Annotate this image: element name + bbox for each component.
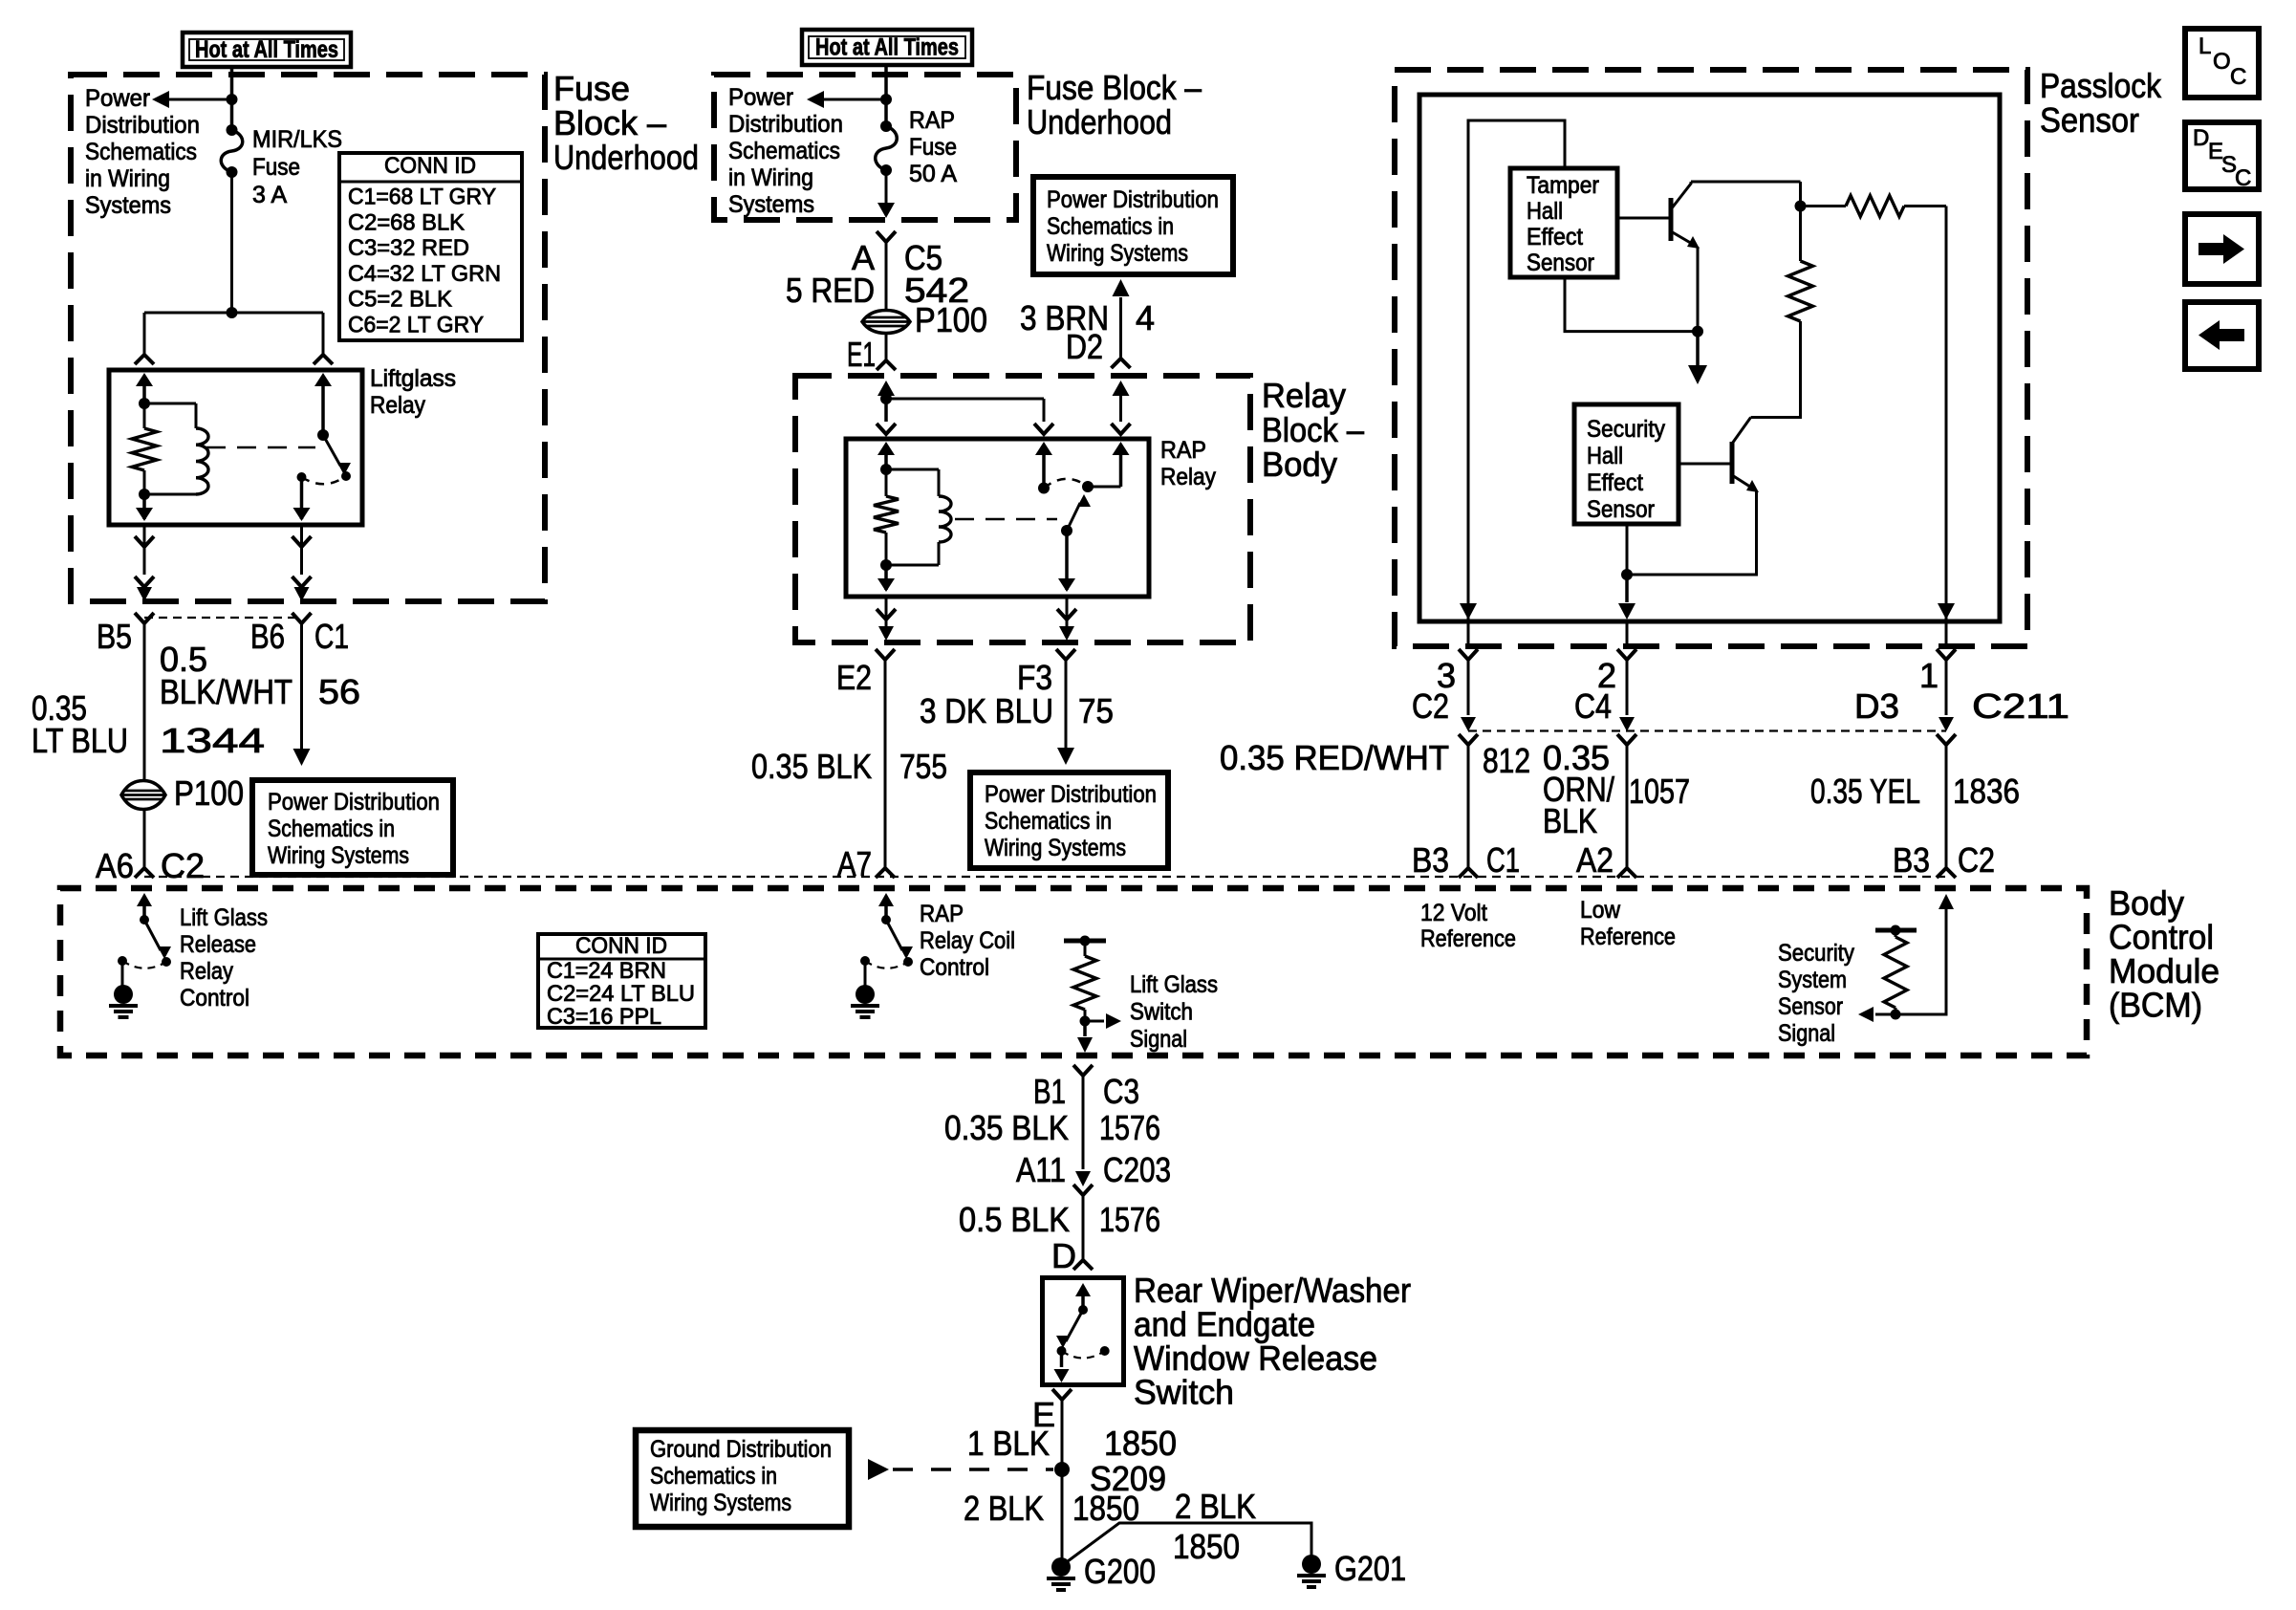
connector fork and arrow at fuse-block border (B6) xyxy=(292,577,312,587)
node security sensor signal xyxy=(1891,1010,1901,1020)
wire RAP switch to F3 border xyxy=(1066,597,1069,626)
svg-text:Fuse Block –: Fuse Block – xyxy=(1027,68,1202,107)
reference box: Power Distribution Schematics (middle) xyxy=(970,772,1168,868)
connector fork at BCM entry A6 xyxy=(135,868,154,878)
svg-text:D: D xyxy=(2193,125,2209,151)
wire pin 2 to BCM (0.35 ORN/BLK) xyxy=(1626,660,1629,715)
svg-text:A2: A2 xyxy=(1576,840,1614,880)
svg-text:Effect: Effect xyxy=(1587,469,1643,496)
wire resistor to output pin 1 xyxy=(1904,205,1946,207)
wire RAP fuse to border arrow xyxy=(885,170,888,203)
svg-text:in Wiring: in Wiring xyxy=(85,165,170,192)
wire A/C5 to P100 (middle) xyxy=(885,242,888,310)
svg-text:Signal: Signal xyxy=(1130,1026,1187,1053)
resistor in liftglass relay (coil suppression) xyxy=(143,403,146,428)
svg-text:1: 1 xyxy=(1919,656,1939,695)
svg-text:3 DK BLU: 3 DK BLU xyxy=(920,691,1053,730)
svg-text:Low: Low xyxy=(1580,897,1621,924)
svg-text:Wiring Systems: Wiring Systems xyxy=(985,835,1126,861)
svg-text:Systems: Systems xyxy=(85,192,171,219)
node relay block feed split xyxy=(880,393,892,404)
dashed box: Passlock Sensor xyxy=(1395,70,2027,646)
node RAP switch pivot xyxy=(1061,525,1072,536)
wire right branch down to relay pin xyxy=(322,313,325,355)
wire fuse to split node xyxy=(230,172,233,313)
svg-text:E2: E2 xyxy=(836,658,872,697)
wire horizontal split xyxy=(144,312,323,315)
svg-text:56: 56 xyxy=(318,672,360,711)
wire security sensor output to Q2 base xyxy=(1679,463,1732,466)
RAP relay switch arm xyxy=(1067,503,1080,531)
node collector-resistor junction xyxy=(1795,201,1807,212)
svg-text:12 Volt: 12 Volt xyxy=(1420,900,1487,926)
node RAP switch NO contact xyxy=(1082,481,1094,492)
svg-text:Security: Security xyxy=(1778,940,1854,967)
svg-text:2 BLK: 2 BLK xyxy=(1175,1487,1256,1526)
RAP relay output arrow xyxy=(1113,442,1130,455)
connector fork pin 2 xyxy=(1617,649,1636,660)
svg-text:L: L xyxy=(2199,33,2211,59)
wire NO contact to output xyxy=(1088,486,1121,489)
svg-text:Tamper: Tamper xyxy=(1527,172,1599,199)
svg-text:G200: G200 xyxy=(1084,1552,1156,1591)
connector fork pin3 harness side xyxy=(1459,734,1478,745)
node RAP coil bottom xyxy=(880,559,892,571)
connector fork pin2 harness side xyxy=(1617,734,1636,745)
fuse MIR/LKS 3 A xyxy=(227,124,238,136)
switch: Lift Glass Release Relay Control (in BCM) xyxy=(142,902,146,920)
svg-text:LT BLU: LT BLU xyxy=(32,721,128,760)
wire D2 inside relay block xyxy=(1113,381,1130,396)
wire security sensor node up to B3/C2 entry xyxy=(1895,908,1946,1014)
transistor Q2 base bar xyxy=(1730,442,1735,484)
wire from Hot at All Times down to fuse MIR/LKS xyxy=(230,67,234,130)
svg-text:0.35 RED/WHT: 0.35 RED/WHT xyxy=(1220,738,1449,777)
svg-text:Lift Glass: Lift Glass xyxy=(180,904,268,931)
RAP relay coil-side entry arrow xyxy=(884,451,888,469)
svg-text:C3=16 PPL: C3=16 PPL xyxy=(547,1004,661,1030)
dashed box: Fuse Block - Underhood (left) xyxy=(71,75,545,601)
connector fork below BCM (B1) xyxy=(1073,1065,1093,1076)
RAP relay switch common entry arrow xyxy=(1042,451,1046,489)
RAP relay switch exit arrow xyxy=(1065,531,1069,590)
svg-text:Power Distribution: Power Distribution xyxy=(268,789,440,816)
svg-text:C5=2 BLK: C5=2 BLK xyxy=(348,287,452,313)
wire E2 to BCM pin A7 xyxy=(884,660,887,868)
node liftglass coil bottom xyxy=(139,489,150,500)
svg-text:D: D xyxy=(1051,1236,1076,1275)
wire sensor ground to pin 2 arrow xyxy=(1625,575,1629,602)
inline connector C203 arrow and fork xyxy=(1075,1171,1091,1186)
svg-text:RAP: RAP xyxy=(909,107,955,134)
wire/arrow to Power Distribution Schematics (middle) xyxy=(824,98,886,101)
svg-text:E1: E1 xyxy=(847,335,876,374)
svg-text:Hot at All Times: Hot at All Times xyxy=(195,36,338,63)
wire passlock feed return arrow (pin 3) xyxy=(1460,603,1477,620)
node lift glass switch signal xyxy=(1080,1016,1091,1027)
svg-text:Schematics in: Schematics in xyxy=(268,816,395,842)
svg-text:Ground Distribution: Ground Distribution xyxy=(650,1436,832,1463)
connector fork below rear switch (E) xyxy=(1052,1389,1072,1400)
svg-text:Power: Power xyxy=(728,84,793,111)
connector fork pin 3 xyxy=(1459,649,1478,660)
svg-text:BLK: BLK xyxy=(1543,801,1597,840)
node: junction to power distribution arrow (middle) xyxy=(880,94,892,105)
liftglass relay switch arm xyxy=(323,435,340,466)
svg-text:Block –: Block – xyxy=(1262,410,1364,449)
sensor box: Tamper Hall Effect Sensor xyxy=(1510,168,1617,277)
svg-text:RAP: RAP xyxy=(1160,437,1206,464)
emitter current arrow Q1 xyxy=(1696,332,1700,365)
node liftglass switch output contact xyxy=(297,472,307,482)
svg-text:Relay: Relay xyxy=(370,392,425,419)
inner case of passlock sensor xyxy=(1419,95,2000,621)
node rear switch NC contact xyxy=(1100,1346,1110,1356)
svg-text:C2: C2 xyxy=(1958,840,1995,880)
signal arrow right (lift glass switch signal) xyxy=(1085,1020,1104,1023)
svg-text:Security: Security xyxy=(1587,416,1665,443)
svg-text:Sensor: Sensor xyxy=(1778,993,1843,1020)
wire passlock 12V feed (pin 3) xyxy=(1468,120,1565,620)
connector fork at RAP relay switch common pin xyxy=(1034,424,1053,434)
connector fork at rear wiper switch entry D xyxy=(1073,1260,1093,1270)
svg-text:1850: 1850 xyxy=(1104,1424,1177,1463)
mechanical link liftglass relay (dashed) xyxy=(206,446,315,449)
svg-text:CONN ID: CONN ID xyxy=(575,933,667,959)
svg-text:B5: B5 xyxy=(97,617,132,656)
wire to rear wiper switch (0.5 BLK 1576) xyxy=(1082,1195,1085,1260)
conn id table (fuse block underhood) xyxy=(339,153,522,340)
connector fork at RAP relay NO contact pin xyxy=(1112,424,1131,434)
node RAP coil top xyxy=(880,464,892,475)
svg-text:Distribution: Distribution xyxy=(728,111,843,138)
svg-text:Passlock: Passlock xyxy=(2040,66,2162,105)
wire branch to G201 (2 BLK 1850) xyxy=(1064,1523,1311,1564)
svg-text:Hall: Hall xyxy=(1587,443,1623,469)
svg-text:Fuse: Fuse xyxy=(553,69,630,108)
svg-text:0.35 BLK: 0.35 BLK xyxy=(944,1108,1069,1147)
svg-text:C3: C3 xyxy=(1103,1072,1139,1111)
svg-text:BLK/WHT: BLK/WHT xyxy=(160,672,292,711)
svg-text:P100: P100 xyxy=(174,773,244,813)
svg-text:Lift Glass: Lift Glass xyxy=(1130,971,1218,998)
thin dashed connector line B5-B6 xyxy=(144,617,302,619)
conn id table (BCM) xyxy=(538,934,705,1028)
node liftglass switch common xyxy=(317,429,329,441)
svg-text:B1: B1 xyxy=(1033,1072,1066,1111)
svg-text:Effect: Effect xyxy=(1527,224,1583,250)
svg-text:C2: C2 xyxy=(1412,686,1449,726)
relay box: Liftglass Relay xyxy=(109,370,362,525)
svg-text:Relay: Relay xyxy=(180,958,233,985)
svg-text:Relay Coil: Relay Coil xyxy=(920,927,1015,954)
svg-text:Reference: Reference xyxy=(1420,925,1516,952)
wire pin 3 to BCM (0.35 RED/WHT) xyxy=(1467,660,1470,715)
wire Q2 emitter to ground node xyxy=(1627,490,1757,575)
svg-text:Wiring Systems: Wiring Systems xyxy=(1047,240,1188,267)
svg-text:1576: 1576 xyxy=(1099,1200,1160,1239)
wire/arrow to Power Distribution Schematics (left) xyxy=(169,98,232,101)
connector fork pin1 harness side xyxy=(1937,734,1956,745)
svg-text:C2=24 LT BLU: C2=24 LT BLU xyxy=(547,981,695,1007)
node liftglass switch moving end xyxy=(341,471,351,481)
rear switch entry arrow xyxy=(1081,1293,1085,1310)
wire B5 to P100 xyxy=(143,623,146,780)
icon box DESC xyxy=(2185,122,2259,189)
dashed box: Body Control Module (BCM) xyxy=(60,888,2087,1055)
svg-text:C1=24 BRN: C1=24 BRN xyxy=(547,958,666,984)
svg-text:Hall: Hall xyxy=(1527,198,1563,225)
connector fork at BCM entry A7 xyxy=(876,868,895,878)
node RAP switch common xyxy=(1038,483,1050,494)
svg-text:C211: C211 xyxy=(1972,686,2069,726)
svg-text:B3: B3 xyxy=(1893,840,1930,880)
connector fork at BCM entry B3/C1 xyxy=(1459,868,1478,878)
rear switch exit arrow xyxy=(1060,1351,1064,1367)
wire liftglass relay contact out to B6 xyxy=(300,525,303,575)
RAP relay coil-side exit arrow xyxy=(884,565,888,590)
svg-text:1057: 1057 xyxy=(1629,772,1690,811)
wire pin 1 to BCM (0.35 YEL) xyxy=(1945,660,1948,715)
connector fork F3 below relay block xyxy=(1056,649,1075,660)
liftglass relay switch exit arrow xyxy=(300,477,304,519)
svg-text:Wiring Systems: Wiring Systems xyxy=(650,1490,791,1516)
svg-text:Hot at All Times: Hot at All Times xyxy=(815,34,959,61)
wire D2 up to power distribution reference xyxy=(1112,359,1131,368)
svg-text:1836: 1836 xyxy=(1953,772,2020,811)
power label box: Hot at All Times (left) xyxy=(183,33,351,67)
svg-text:B3: B3 xyxy=(1412,840,1449,880)
svg-text:1850: 1850 xyxy=(1173,1527,1240,1566)
wire E to S209 (1 BLK 1850) xyxy=(1061,1400,1064,1469)
svg-text:MIR/LKS: MIR/LKS xyxy=(252,126,342,153)
connector fork E2 below relay block xyxy=(876,649,895,660)
svg-text:Signal: Signal xyxy=(1778,1020,1835,1047)
relay box: RAP Relay xyxy=(846,439,1149,597)
wire relay feed jumper to switch common xyxy=(886,398,1044,401)
svg-text:C203: C203 xyxy=(1103,1150,1171,1189)
transistor Q1 base bar xyxy=(1669,198,1674,241)
svg-text:Control: Control xyxy=(180,985,249,1012)
svg-text:G201: G201 xyxy=(1334,1549,1406,1588)
wire P100 to E1 xyxy=(885,333,888,360)
svg-text:Fuse: Fuse xyxy=(909,134,957,161)
connector fork B6/C1 below fuse block xyxy=(292,613,312,623)
svg-text:1576: 1576 xyxy=(1099,1108,1160,1147)
connector fork at relay block entry E1 xyxy=(877,360,896,370)
svg-text:RAP: RAP xyxy=(920,901,964,927)
feed arrow into relay block at E1 xyxy=(877,381,895,396)
transistor Q1 emitter with arrow xyxy=(1671,231,1694,245)
dashed box: Relay Block - Body xyxy=(795,376,1250,642)
svg-text:Wiring Systems: Wiring Systems xyxy=(268,842,409,869)
svg-text:C2: C2 xyxy=(161,846,205,885)
svg-text:Underhood: Underhood xyxy=(1027,102,1172,141)
switch box: Rear Wiper/Washer and Endgate Window Release Switch xyxy=(1043,1278,1124,1385)
svg-text:50 A: 50 A xyxy=(909,161,957,187)
svg-text:B6: B6 xyxy=(250,617,285,656)
wire RAP coil return to E2 border xyxy=(885,597,888,626)
dashed box: Fuse Block - Underhood (middle) xyxy=(714,75,1016,220)
connector fork B5 below fuse block xyxy=(135,613,154,623)
dashed travel arc of liftglass switch xyxy=(302,476,347,484)
svg-text:System: System xyxy=(1778,967,1847,993)
connector fork at RAP relay coil pin xyxy=(877,424,896,434)
node rear switch pivot xyxy=(1078,1305,1088,1315)
splice node S209 xyxy=(1054,1462,1070,1477)
svg-text:C1=68 LT GRY: C1=68 LT GRY xyxy=(348,185,496,210)
svg-text:in Wiring: in Wiring xyxy=(728,164,813,191)
connector fork at BCM entry B3/C2 xyxy=(1937,868,1956,878)
svg-text:C1: C1 xyxy=(314,617,349,656)
svg-text:Sensor: Sensor xyxy=(1527,250,1594,276)
svg-text:Switch: Switch xyxy=(1134,1373,1234,1412)
svg-text:D2: D2 xyxy=(1066,327,1103,366)
svg-text:Fuse: Fuse xyxy=(252,154,300,181)
svg-text:0.5 BLK: 0.5 BLK xyxy=(959,1200,1070,1239)
svg-text:Schematics in: Schematics in xyxy=(985,808,1112,835)
resistor passlock output pull-up (horizontal) xyxy=(1846,196,1904,217)
svg-text:(BCM): (BCM) xyxy=(2109,986,2202,1025)
wire F3 down to power distribution reference xyxy=(1065,660,1068,748)
connector fork pin 1 xyxy=(1937,649,1956,660)
svg-text:2 BLK: 2 BLK xyxy=(964,1489,1044,1528)
svg-text:C4=32 LT GRN: C4=32 LT GRN xyxy=(348,261,501,287)
wire collector node to load resistor xyxy=(1801,205,1847,207)
svg-text:812: 812 xyxy=(1483,741,1530,780)
svg-text:Power: Power xyxy=(85,85,150,112)
connector fork A below fuse block (middle) xyxy=(877,231,896,242)
power label box: Hot at All Times (middle) xyxy=(802,30,972,65)
svg-text:Schematics: Schematics xyxy=(85,139,197,165)
wire P100 to BCM pin A6 xyxy=(143,810,146,868)
svg-text:Schematics in: Schematics in xyxy=(1047,213,1174,240)
wire pin 2 through passlock border xyxy=(1626,621,1629,646)
ground in BCM (lift glass release) xyxy=(121,961,124,987)
coil of liftglass relay xyxy=(144,402,196,405)
wire C1/56 down to power distribution box xyxy=(300,623,303,749)
wire B1/C3 down (0.35 BLK 1576) xyxy=(1082,1076,1085,1169)
svg-text:Schematics in: Schematics in xyxy=(650,1463,777,1490)
svg-text:C2=68 BLK: C2=68 BLK xyxy=(348,209,465,235)
node rear switch output contact xyxy=(1057,1346,1067,1356)
svg-text:4: 4 xyxy=(1136,298,1155,337)
resistor passlock divider (vertical) xyxy=(1799,207,1802,262)
svg-text:C: C xyxy=(2230,64,2246,90)
transistor Q2 collector xyxy=(1732,418,1751,445)
icon box next arrow xyxy=(2185,214,2259,284)
connector fork left relay pin xyxy=(135,355,154,364)
resistor: lift glass switch signal pull-up xyxy=(1064,939,1106,944)
liftglass relay coil-side exit arrow xyxy=(142,494,146,519)
reference box: Ground Distribution Schematics in Wiring Systems xyxy=(636,1430,849,1527)
svg-text:C: C xyxy=(2235,165,2251,191)
transistor Q2 emitter with arrow xyxy=(1732,475,1753,489)
svg-text:0.35 BLK: 0.35 BLK xyxy=(751,747,872,786)
svg-text:Sensor: Sensor xyxy=(2040,100,2139,140)
svg-text:C6=2 LT GRY: C6=2 LT GRY xyxy=(348,313,484,338)
node security sensor ground junction xyxy=(1621,569,1633,580)
fuse RAP 50 A xyxy=(880,120,892,132)
coil of RAP relay xyxy=(886,468,939,471)
svg-text:Distribution: Distribution xyxy=(85,112,200,139)
svg-text:A11: A11 xyxy=(1016,1150,1066,1189)
svg-text:A6: A6 xyxy=(96,846,134,885)
svg-text:P100: P100 xyxy=(915,300,987,339)
connector fork at BCM entry A2 xyxy=(1617,868,1636,878)
svg-text:C1: C1 xyxy=(1486,840,1520,880)
svg-text:5 RED: 5 RED xyxy=(786,271,875,310)
svg-text:Liftglass: Liftglass xyxy=(370,365,456,392)
svg-text:D3: D3 xyxy=(1854,686,1899,726)
svg-text:C4: C4 xyxy=(1574,686,1612,726)
node: junction to power distribution arrow xyxy=(227,94,238,105)
wire divider resistor to transistor Q2 collector xyxy=(1751,321,1801,418)
transistor Q1 collector xyxy=(1671,182,1691,209)
resistor in RAP relay xyxy=(885,469,888,496)
connector fork and arrow at fuse-block border (B5) xyxy=(135,577,154,587)
svg-text:Sensor: Sensor xyxy=(1587,496,1655,523)
ground G201 xyxy=(1302,1555,1321,1574)
wire left branch down to relay pin xyxy=(143,313,146,355)
resistor: security system sensor pull-up (in BCM) xyxy=(1875,928,1917,933)
svg-text:Reference: Reference xyxy=(1580,924,1676,950)
svg-text:Release: Release xyxy=(180,931,256,958)
sensor box: Security Hall Effect Sensor xyxy=(1574,404,1679,524)
node: split to liftglass relay coil and contact xyxy=(227,307,238,318)
icon box previous arrow xyxy=(2185,302,2259,369)
svg-text:Power Distribution: Power Distribution xyxy=(1047,186,1219,213)
liftglass relay coil-side entry arrow xyxy=(142,382,146,403)
svg-text:Control: Control xyxy=(920,954,989,981)
switch: RAP Relay Coil Control (in BCM) xyxy=(884,902,888,920)
connector fork right relay pin xyxy=(314,355,333,364)
svg-text:755: 755 xyxy=(899,747,947,786)
wire tamper sensor output to transistor Q1 base xyxy=(1617,217,1671,220)
ground in BCM (RAP relay coil) xyxy=(864,961,867,987)
splice pack P100 (left) xyxy=(121,781,165,810)
icon box LOC xyxy=(2185,29,2259,98)
svg-text:Underhood: Underhood xyxy=(553,138,699,177)
rear switch arm xyxy=(1066,1310,1083,1341)
wire security sensor ground side xyxy=(1626,524,1629,575)
ground G200 xyxy=(1051,1557,1071,1577)
wire passlock signal out arrow (pin 1) xyxy=(1938,603,1955,620)
thin dashed connector line C2-C4-D3 harness xyxy=(1468,729,1946,731)
svg-text:1344: 1344 xyxy=(160,721,265,760)
svg-text:Relay: Relay xyxy=(1262,376,1346,415)
svg-text:Systems: Systems xyxy=(728,191,814,218)
wire tamper sensor ground side xyxy=(1565,277,1698,332)
svg-text:Block –: Block – xyxy=(553,103,666,142)
svg-text:1 BLK: 1 BLK xyxy=(967,1424,1050,1463)
svg-text:Body: Body xyxy=(1262,445,1337,484)
wire S209 to G200 (2 BLK 1850) xyxy=(1061,1469,1064,1558)
signal arrow left (security system sensor signal) xyxy=(1875,1013,1895,1016)
ground distribution dashed link to S209 xyxy=(868,1459,889,1480)
svg-text:75: 75 xyxy=(1078,691,1114,730)
liftglass relay switch-side entry arrow xyxy=(321,382,325,435)
dashed travel arc of RAP switch xyxy=(1044,479,1088,489)
svg-text:Schematics: Schematics xyxy=(728,138,840,164)
wire pin 1 through passlock border xyxy=(1945,621,1948,646)
wire liftglass relay coil return to B5 xyxy=(143,525,146,575)
wire lift glass switch signal to B1 xyxy=(1083,1021,1087,1036)
svg-text:Power Distribution: Power Distribution xyxy=(985,781,1157,808)
thin dashed connector line across BCM top xyxy=(144,876,1946,878)
mechanical link RAP relay (dashed) xyxy=(955,518,1057,521)
node Q1 emitter junction xyxy=(1692,326,1703,337)
